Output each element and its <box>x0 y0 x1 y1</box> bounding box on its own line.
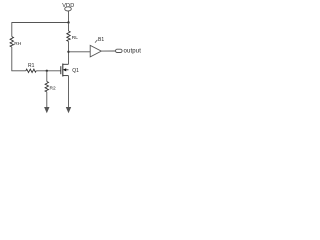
wire R2 bottom lead <box>46 92 48 109</box>
svg-text:RL: RL <box>72 35 78 41</box>
wire source to ground <box>68 76 70 109</box>
resistor R1 <box>26 69 36 72</box>
wire bottom left horizontal <box>11 70 25 72</box>
transistor Q1 channel bar <box>62 64 64 77</box>
resistor RH <box>10 37 13 47</box>
transistor Q1 drain lead <box>63 63 69 65</box>
wire top rail <box>12 22 69 24</box>
svg-text:R1: R1 <box>28 63 35 69</box>
svg-text:VDD: VDD <box>62 3 74 9</box>
junction dot top rail <box>67 21 69 23</box>
svg-text:output: output <box>124 48 142 54</box>
svg-text:Q1: Q1 <box>72 68 79 74</box>
wire R1 to gate <box>36 70 61 72</box>
transistor Q1 bulk lead <box>64 69 69 71</box>
wire left vertical lower <box>11 47 13 71</box>
junction dot drain node <box>67 51 69 53</box>
ground arrow right <box>66 107 71 113</box>
transistor Q1 gate bar <box>60 66 62 74</box>
transistor Q1 bulk arrow <box>63 68 66 71</box>
output terminal <box>116 49 123 52</box>
wire VDD stem <box>68 11 70 23</box>
junction dot gate node <box>46 70 48 72</box>
wire R2 top lead <box>46 71 48 82</box>
svg-text:RH: RH <box>14 41 21 47</box>
op-amp buffer B1 <box>90 45 101 57</box>
wire drain node to buffer input <box>69 51 91 53</box>
wire RL bottom to drain node <box>68 41 70 64</box>
svg-text:B1: B1 <box>98 37 104 43</box>
transistor Q1 source lead <box>63 75 69 77</box>
resistor RL <box>67 31 70 41</box>
resistor R2 <box>45 82 48 92</box>
wire buffer output <box>101 50 115 52</box>
label leader B1 <box>95 40 97 43</box>
wire left vertical upper <box>11 22 13 36</box>
svg-text:R2: R2 <box>50 86 56 92</box>
ground arrow left <box>44 107 49 113</box>
power terminal VDD <box>65 7 72 11</box>
wire RL top lead <box>68 23 70 32</box>
